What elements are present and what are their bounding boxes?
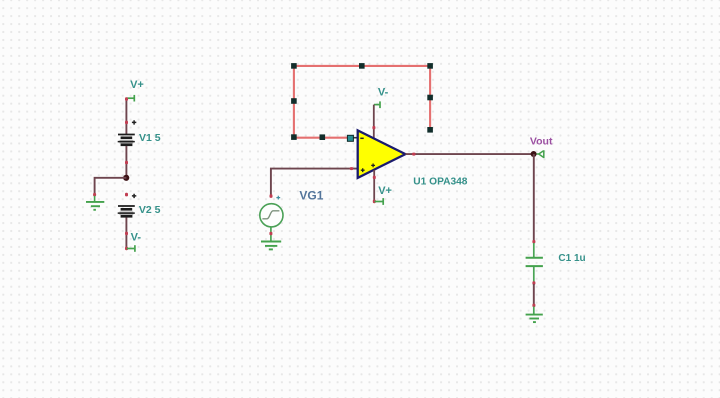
pin end marker V2 bottom [125,232,128,236]
wire handle bottom-left corner [291,134,297,140]
VG1 plus mark (teal) [276,196,280,200]
op-amp input stub wire [350,137,358,139]
plus polarity mark V2 [132,194,136,198]
svg-text:V+: V+ [130,79,144,91]
svg-text:V-: V- [131,232,142,244]
wire handle end bottom-right [427,127,433,133]
wire V+ terminal to V1 [125,98,127,134]
pin end marker ground left [93,193,96,197]
ground GND3 stem [533,307,535,315]
op-amp non-inverting plus mark [361,168,365,172]
pin end marker VG1 top [270,194,273,198]
wire handle top-left [291,63,297,69]
pin end marker VG1 bottom [269,232,272,236]
svg-text:V1 5: V1 5 [139,132,161,144]
pin end marker op-amp non-inverting input [350,167,354,170]
svg-text:C1 1u: C1 1u [558,253,585,264]
junction node A [123,175,129,181]
wire V- terminal to op-amp top supply pin [373,105,375,139]
jumper terminal V+ (left) [127,95,135,102]
wire C1 to ground [533,284,535,305]
pin end marker op-amp V- supply [372,126,375,130]
pin end marker V+ terminal [373,200,376,204]
ground GND2 (VG1) [261,242,281,250]
pin end marker op-amp V+ supply [373,176,376,180]
wire Vout to C1 [533,154,535,241]
VG1 waveform [262,211,279,219]
wire handle right-mid [427,95,433,101]
svg-text:V2 5: V2 5 [139,204,161,216]
wire VG1 to op-amp non-inverting input [271,169,358,198]
junction node Vout [531,151,537,157]
op-amp V+ supply plus mark [371,164,375,168]
svg-text:Vout: Vout [530,136,553,148]
voltage generator VG1 circle [260,204,283,227]
wire op-amp output to Vout node [405,153,533,155]
plus polarity mark V1 [132,120,136,124]
ground GND3 (right) [526,315,543,323]
pin end marker V1 top [125,121,128,125]
svg-text:U1 OPA348: U1 OPA348 [413,177,468,188]
capacitor C1 [526,258,543,266]
wire V1 to junction [125,146,127,178]
op-amp U1 triangle [358,130,406,178]
wire handle left-mid [291,98,297,104]
battery V1 [118,135,135,145]
pin end marker C1 top [532,240,535,244]
jumper terminal V+ (below op-amp) [375,198,384,205]
battery V2 [118,206,135,216]
pin end marker V1 bottom [125,161,128,165]
wire endpoint handle at op-amp input (teal) [347,135,353,141]
pin end marker bottom terminal [125,247,128,251]
VG1 ground stem [270,227,272,241]
pin end marker top terminal [125,97,128,101]
wire handle bottom-mid [320,134,326,140]
pin end marker ground right [532,304,535,308]
wire V2 to V- terminal [125,218,127,249]
pin end marker C1 bottom [532,281,535,285]
C1 top lead [533,243,535,257]
wire junction to ground (left) [95,178,127,193]
svg-text:V-: V- [378,87,389,99]
svg-text:VG1: VG1 [299,188,323,202]
selected feedback wire (red) [294,66,430,138]
jumper terminal V- (left) [127,245,135,252]
wire handle top-right [427,63,433,69]
jumper terminal V- (above op-amp) [374,101,380,108]
pin end marker op-amp output [412,153,416,156]
op-amp inverting minus mark [360,137,363,139]
wire op-amp bottom supply pin to V+ terminal [373,170,375,201]
C1 bottom lead [533,267,535,282]
ground GND1 (left) [86,196,104,210]
Vout node tag [537,150,544,158]
wire handle top-mid [359,63,365,69]
svg-text:V+: V+ [378,185,392,197]
pin end marker V2 top [125,193,128,197]
